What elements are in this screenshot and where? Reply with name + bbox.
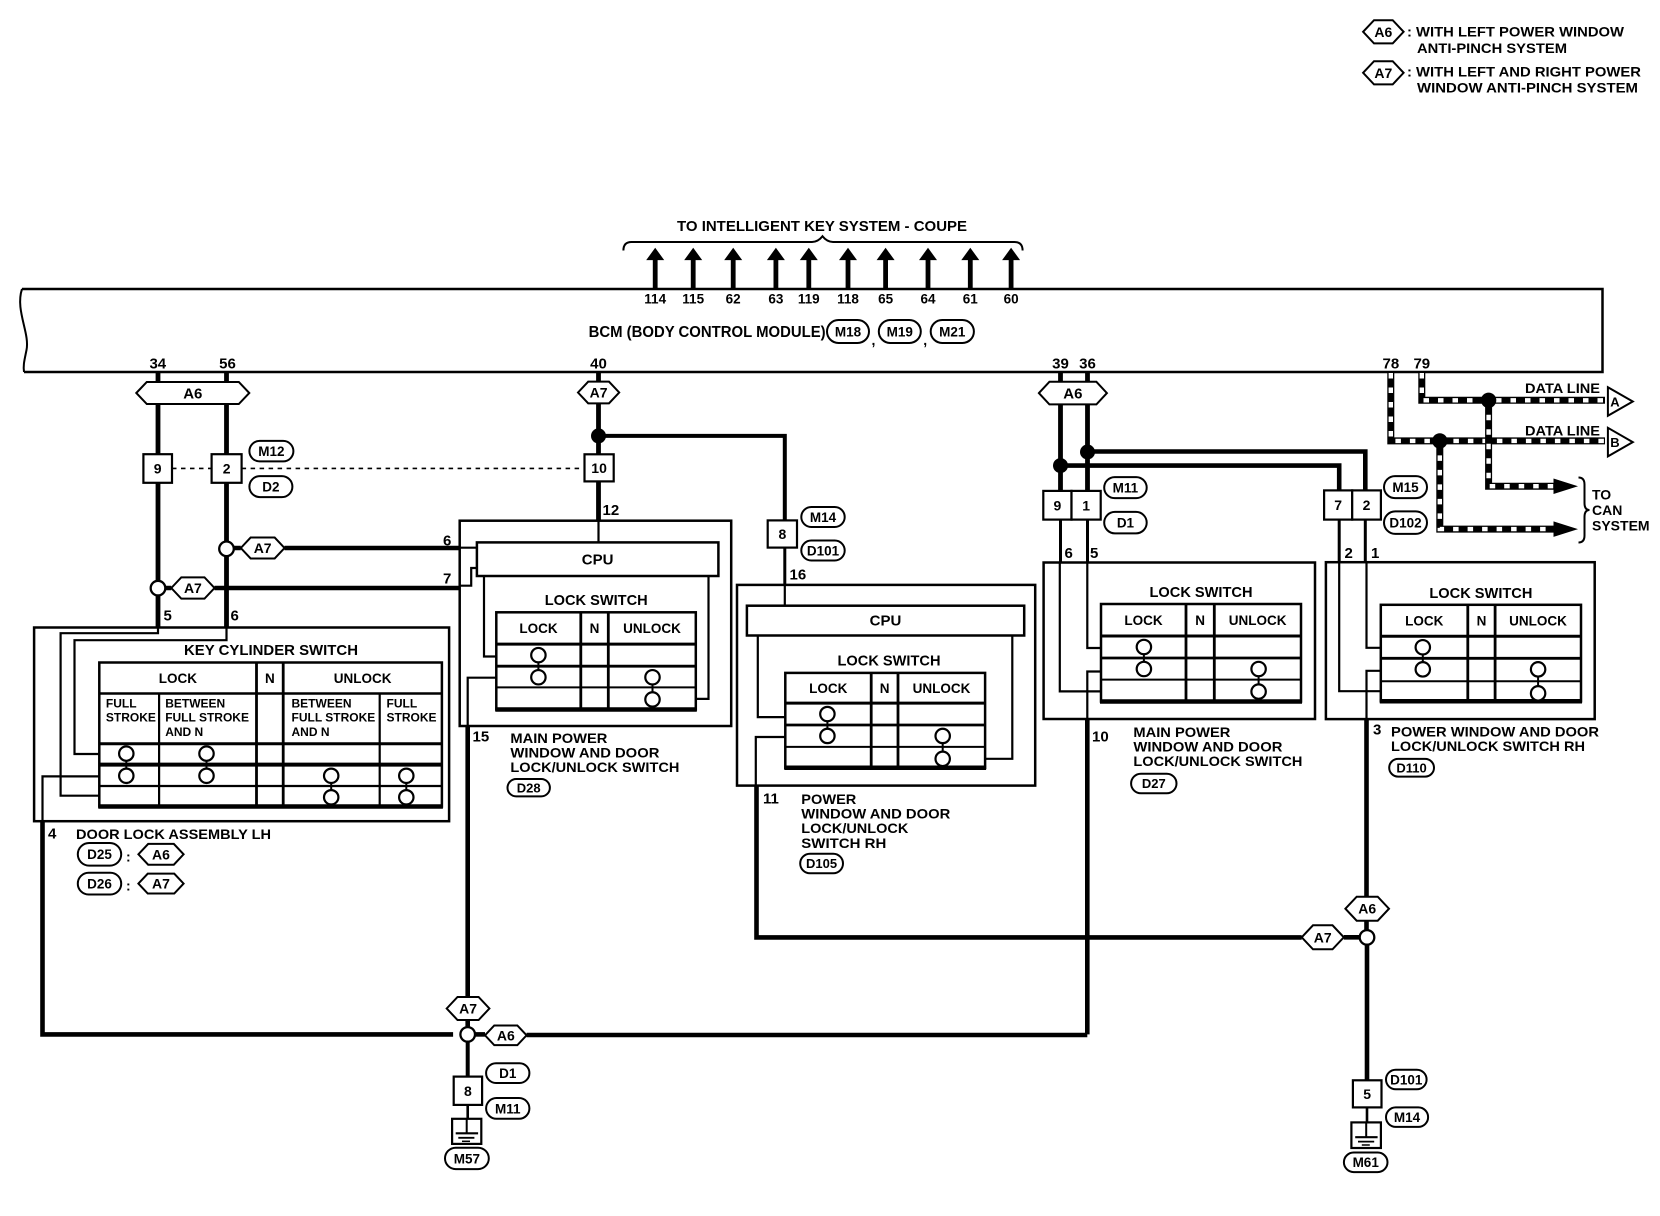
connector pin 9 (M12/D2) <box>143 454 172 483</box>
wire pin 12 inside D28 <box>597 521 599 543</box>
CAN system arrowhead upper <box>1554 479 1579 495</box>
shielded data line wire pin 79 to DATA LINE A <box>1422 373 1605 400</box>
svg-text:LOCK/UNLOCK SWITCH: LOCK/UNLOCK SWITCH <box>1133 753 1302 769</box>
wire row 2 to pin 3 (D110) <box>1367 671 1381 719</box>
svg-text:M12: M12 <box>258 444 284 459</box>
wire bottom bus to D27 pin 10 <box>527 1033 1088 1038</box>
main power window and door lock/unlock switch D28 box <box>460 521 732 726</box>
connector D1 (ground leg) <box>486 1063 529 1083</box>
svg-text:CAN: CAN <box>1592 502 1622 518</box>
svg-text:A7: A7 <box>1314 929 1332 945</box>
svg-text:UNLOCK: UNLOCK <box>1509 613 1567 628</box>
connector pin 8 (M14/D101) <box>768 520 797 547</box>
svg-text:LOCK: LOCK <box>519 621 557 636</box>
wire D110 pin 2 to row 3 <box>1339 562 1381 691</box>
connector M14 (ground leg) <box>1386 1107 1428 1127</box>
wire to D110 pin 1 <box>1364 520 1367 563</box>
svg-text:N: N <box>265 671 275 686</box>
BCM pin 62 arrow to intelligent key system <box>724 248 742 307</box>
wire door lock assembly pin 4 to splice <box>43 821 454 1034</box>
CPU bar U2 (D105) <box>747 606 1024 636</box>
svg-text:LOCK/UNLOCK SWITCH: LOCK/UNLOCK SWITCH <box>510 759 679 775</box>
svg-text:M15: M15 <box>1392 480 1419 495</box>
wire lock row 2 to pin 11 (D105) <box>756 737 786 786</box>
svg-text:78: 78 <box>1383 356 1400 373</box>
svg-text:12: 12 <box>603 502 620 519</box>
wire hexagon to splice <box>1364 921 1369 931</box>
svg-text:4: 4 <box>48 826 57 843</box>
wire pin 34 stub <box>156 372 161 382</box>
connector A7 (branch to D28 pin 6) <box>241 538 285 559</box>
wire lock row 2 to pin 15 (D28) <box>468 678 497 726</box>
svg-text:LOCK SWITCH: LOCK SWITCH <box>1429 585 1532 602</box>
svg-text:N: N <box>1195 613 1205 628</box>
svg-text:A7: A7 <box>459 1001 477 1017</box>
svg-text:KEY CYLINDER SWITCH: KEY CYLINDER SWITCH <box>184 642 358 659</box>
svg-text:CPU: CPU <box>582 552 614 569</box>
wire pin 16 inside D105 <box>784 585 786 606</box>
connector pin 8 (D1/M11) <box>454 1077 482 1105</box>
connector M11 (ground leg) <box>486 1098 529 1119</box>
svg-text:56: 56 <box>219 356 236 373</box>
wire A7 branch to D28 pin 6 <box>285 546 460 551</box>
lock switch table (D110) <box>1380 605 1582 702</box>
svg-text:D26: D26 <box>87 877 112 892</box>
svg-text:34: 34 <box>149 356 166 373</box>
junction on wire 36 <box>1080 445 1095 460</box>
lock switch table (D105) <box>784 673 986 768</box>
connector A7 (branch to D28 pin 7) <box>171 577 214 598</box>
svg-text:115: 115 <box>682 292 704 307</box>
connector pin 5 (D101/M14) <box>1353 1080 1382 1107</box>
connector D25 <box>78 843 121 866</box>
wire 34 to key cylinder pin 5 <box>156 595 161 627</box>
svg-text:AND N: AND N <box>165 725 203 739</box>
svg-text:FULL STROKE: FULL STROKE <box>292 711 376 725</box>
wire D27 pin 5 to row 1 <box>1087 563 1101 649</box>
wire splice down to connector 5 <box>1365 945 1370 1081</box>
wire 56 below connector <box>224 483 229 542</box>
branch wire 36 to connector 2 (M15/D102) <box>1088 452 1366 491</box>
svg-text:6: 6 <box>231 608 239 625</box>
svg-text:N: N <box>1477 613 1487 628</box>
svg-text:114: 114 <box>644 292 666 307</box>
svg-text:5: 5 <box>164 608 172 625</box>
junction on data line A <box>1481 393 1496 408</box>
svg-text:5: 5 <box>1090 545 1098 562</box>
svg-text:UNLOCK: UNLOCK <box>913 681 971 696</box>
svg-text:M21: M21 <box>939 324 966 339</box>
svg-text:,: , <box>872 332 876 348</box>
curly brace TO CAN SYSTEM <box>1579 478 1590 543</box>
svg-text:LOCK SWITCH: LOCK SWITCH <box>838 652 941 669</box>
stub splice to A7 hexagon <box>165 586 171 591</box>
BCM pin 60 arrow to intelligent key system <box>1002 248 1020 307</box>
svg-text:,: , <box>923 332 927 348</box>
svg-text:ANTI-PINCH SYSTEM: ANTI-PINCH SYSTEM <box>1417 40 1567 56</box>
wire to D105 pin 16 <box>783 548 786 585</box>
svg-text:6: 6 <box>1065 545 1073 562</box>
ground M61 <box>1351 1122 1381 1148</box>
shielded wire junction A to CAN system <box>1489 400 1554 486</box>
BCM pin 118 arrow to intelligent key system <box>837 248 859 307</box>
svg-text:LOCK: LOCK <box>809 681 847 696</box>
wire D105 pin 11 down <box>757 786 1302 938</box>
wire row 2 to pin 10 (D27) <box>1087 672 1101 720</box>
wire to D27 pin 6 <box>1059 520 1062 563</box>
svg-text:60: 60 <box>1004 292 1019 307</box>
svg-text:M14: M14 <box>810 510 837 525</box>
wire D27 pin 6 to row 3 <box>1060 563 1101 692</box>
BCM pin 64 arrow to intelligent key system <box>919 248 937 307</box>
BCM pin 61 arrow to intelligent key system <box>961 248 979 307</box>
connector pin 1 (M11/D1) <box>1072 491 1101 520</box>
connector D101 <box>801 541 844 561</box>
svg-text:A7: A7 <box>184 580 202 596</box>
svg-text:119: 119 <box>798 292 820 307</box>
wire 40 down to connector 10 <box>596 403 601 454</box>
svg-text:63: 63 <box>768 292 784 307</box>
connector A6 (pins 34/56) <box>136 382 249 404</box>
wire to D110 pin 2 <box>1338 520 1341 563</box>
svg-text::: : <box>126 849 131 865</box>
connector D28 <box>508 779 550 796</box>
svg-text:62: 62 <box>726 292 741 307</box>
splice junction on wire 56 <box>219 542 234 557</box>
svg-text:LOCK: LOCK <box>1124 613 1162 628</box>
svg-text:BETWEEN: BETWEEN <box>165 697 225 711</box>
wire connector 8 to ground <box>466 1105 469 1119</box>
shielded data line wire pin 78 to DATA LINE B <box>1391 373 1605 441</box>
svg-text:D1: D1 <box>1117 516 1135 531</box>
connector D26 <box>78 873 121 895</box>
wire D28 pin 7 to CPU <box>460 568 477 586</box>
svg-text:FULL: FULL <box>387 697 418 711</box>
BCM pin 115 arrow to intelligent key system <box>682 248 704 307</box>
svg-text:M11: M11 <box>1113 481 1139 496</box>
svg-text:A6: A6 <box>497 1027 515 1043</box>
svg-text:6: 6 <box>443 533 451 550</box>
svg-text:5: 5 <box>1363 1086 1371 1102</box>
svg-text:M57: M57 <box>454 1151 480 1166</box>
connector A6 (pins 39/36) <box>1039 382 1107 405</box>
svg-text:M18: M18 <box>835 324 862 339</box>
svg-text:A7: A7 <box>254 540 272 556</box>
svg-text:M61: M61 <box>1353 1155 1380 1170</box>
CPU bar U1 (D28) <box>477 542 719 576</box>
wire A7 branch to D28 pin 7 <box>215 586 460 591</box>
svg-text:A7: A7 <box>152 876 170 892</box>
svg-text:M14: M14 <box>1394 1110 1421 1125</box>
wire D27 pin 10 down <box>1085 719 1090 1034</box>
svg-text:M19: M19 <box>887 324 913 339</box>
wire splice down to connector 8 <box>466 1042 470 1077</box>
svg-text:BCM (BODY CONTROL MODULE): BCM (BODY CONTROL MODULE) <box>589 324 826 341</box>
svg-text:A6: A6 <box>1374 24 1392 40</box>
splice junction bottom left <box>460 1027 475 1042</box>
connector D105 <box>800 854 843 874</box>
wire 34 below connector <box>156 483 161 581</box>
connector D2 <box>249 476 292 497</box>
wire 36 down to connector M11/D1 <box>1085 404 1090 490</box>
svg-text:LOCK SWITCH: LOCK SWITCH <box>545 592 648 609</box>
wire CPU to unlock row 3 (D28) <box>696 576 709 699</box>
svg-text:FULL STROKE: FULL STROKE <box>165 711 249 725</box>
BCM (Body Control Module) box <box>22 289 1603 372</box>
connector D27 <box>1131 774 1176 794</box>
connector A7 (pin 15 wire) <box>447 997 490 1020</box>
connector D1 <box>1104 512 1147 534</box>
svg-text:64: 64 <box>920 292 936 307</box>
svg-text::: : <box>126 878 131 894</box>
svg-text:8: 8 <box>778 526 786 542</box>
ground M57 <box>452 1119 481 1144</box>
svg-text:39: 39 <box>1052 356 1069 373</box>
stub splice to A7 hexagon <box>234 546 241 551</box>
wire pin 39 stub <box>1058 372 1063 382</box>
junction on wire 39 <box>1053 458 1068 473</box>
door lock assembly LH outer box <box>34 628 449 822</box>
svg-text:A6: A6 <box>1063 386 1082 403</box>
svg-text:D1: D1 <box>499 1066 517 1081</box>
key cylinder internal wire pin 6 to row 1 <box>75 628 227 755</box>
svg-text:118: 118 <box>837 292 859 307</box>
connector pin 7 (M15/D102) <box>1324 490 1352 519</box>
bracket over arrows <box>623 236 1022 250</box>
junction wire 40 branch <box>591 428 606 443</box>
off-page arrow B <box>1608 428 1633 457</box>
svg-text:LOCK SWITCH: LOCK SWITCH <box>1150 584 1253 601</box>
connector crossing dashed line <box>172 467 585 469</box>
svg-text:3: 3 <box>1373 722 1381 739</box>
power window and door lock/unlock switch RH D110 box <box>1326 562 1595 719</box>
connector M15 <box>1384 476 1427 498</box>
svg-text:BETWEEN: BETWEEN <box>292 697 352 711</box>
svg-text:A7: A7 <box>590 385 608 401</box>
svg-text:FULL: FULL <box>106 697 137 711</box>
stub splice to A6 hexagon <box>475 1032 485 1037</box>
key cylinder internal wire row 2 to pin 4 <box>43 776 100 821</box>
wire D28 pin 15 down <box>465 726 470 997</box>
wire D110 pin 1 to row 1 <box>1367 562 1381 648</box>
connector pin 2 (M15/D102) <box>1352 490 1381 519</box>
svg-text:STROKE: STROKE <box>387 711 437 725</box>
svg-text:15: 15 <box>473 729 490 746</box>
svg-text:D25: D25 <box>87 847 112 862</box>
svg-text:A7: A7 <box>1374 65 1392 81</box>
svg-text:LOCK: LOCK <box>1405 613 1443 628</box>
connector D101 (ground leg) <box>1386 1070 1427 1090</box>
svg-text:D2: D2 <box>262 480 279 495</box>
connector A7 (D105 pin 11 bus) <box>1302 925 1344 949</box>
svg-text:LOCK: LOCK <box>159 671 197 686</box>
svg-text:DATA LINE: DATA LINE <box>1525 423 1600 439</box>
svg-text:SWITCH RH: SWITCH RH <box>801 835 886 851</box>
wire 56 to connector M12/D2 <box>224 404 229 454</box>
svg-text:7: 7 <box>443 571 451 588</box>
connector M19 <box>879 320 921 343</box>
wire connector 5 to ground <box>1366 1107 1369 1122</box>
BCM pin 63 arrow to intelligent key system <box>767 248 785 307</box>
connector pin 9 (M11/D1) <box>1043 491 1071 520</box>
svg-text:A6: A6 <box>152 846 170 862</box>
wire CPU to lock row 1 (D28) <box>484 576 496 657</box>
svg-text:1: 1 <box>1082 497 1090 513</box>
off-page arrow A <box>1608 387 1633 416</box>
connector D102 <box>1384 511 1427 534</box>
connector A7 (pin 40) <box>578 382 619 404</box>
svg-text:36: 36 <box>1079 356 1096 373</box>
BCM box torn left edge <box>20 289 27 372</box>
svg-text:D110: D110 <box>1396 760 1426 775</box>
lock switch table (D27) <box>1100 604 1302 702</box>
connector M14 <box>801 507 844 527</box>
legend connector A7 <box>1363 61 1404 84</box>
connector A6 (pin 3 wire) <box>1345 897 1389 921</box>
BCM pin 119 arrow to intelligent key system <box>798 248 820 307</box>
BCM pin 65 arrow to intelligent key system <box>877 248 895 307</box>
svg-text:M11: M11 <box>495 1101 521 1116</box>
splice junction on wire 34 <box>151 581 166 596</box>
svg-text:10: 10 <box>591 460 607 476</box>
connector A7 (D26 variant) <box>138 874 183 894</box>
svg-text:LOCK/UNLOCK SWITCH RH: LOCK/UNLOCK SWITCH RH <box>1391 738 1585 754</box>
wire to D27 pin 5 <box>1086 520 1089 563</box>
svg-text:D28: D28 <box>517 780 541 795</box>
legend connector A6 <box>1363 20 1404 43</box>
wire pin 40 stub <box>596 372 601 382</box>
svg-text:10: 10 <box>1092 729 1109 746</box>
svg-text:STROKE: STROKE <box>106 711 156 725</box>
svg-text:D105: D105 <box>806 856 837 871</box>
svg-text:9: 9 <box>1054 497 1062 513</box>
svg-text:11: 11 <box>763 791 779 808</box>
connector A6 (D25 variant) <box>138 844 183 865</box>
svg-text:79: 79 <box>1413 356 1430 373</box>
svg-text:D101: D101 <box>807 543 840 558</box>
junction on data line B <box>1432 433 1447 448</box>
svg-text:A: A <box>1610 395 1620 410</box>
svg-text:D102: D102 <box>1389 516 1421 531</box>
CAN system arrowhead lower <box>1554 521 1579 537</box>
wire hexagon to splice <box>465 1020 470 1027</box>
connector M21 <box>931 320 974 343</box>
svg-text:: WITH LEFT AND RIGHT POWER: : WITH LEFT AND RIGHT POWER <box>1407 64 1641 80</box>
svg-text:7: 7 <box>1334 497 1342 513</box>
svg-text:40: 40 <box>590 356 607 373</box>
svg-text:DATA LINE: DATA LINE <box>1525 380 1600 396</box>
svg-text:UNLOCK: UNLOCK <box>1229 613 1287 628</box>
svg-text:9: 9 <box>154 461 162 477</box>
svg-text:: WITH LEFT POWER WINDOW: : WITH LEFT POWER WINDOW <box>1407 24 1625 40</box>
svg-text:AND N: AND N <box>292 725 330 739</box>
svg-text:2: 2 <box>223 461 231 477</box>
connector pin 10 (M12/D2) <box>585 454 614 481</box>
svg-text:TO INTELLIGENT KEY SYSTEM - CO: TO INTELLIGENT KEY SYSTEM - COUPE <box>677 218 967 235</box>
svg-text:WINDOW ANTI-PINCH SYSTEM: WINDOW ANTI-PINCH SYSTEM <box>1417 80 1638 96</box>
svg-text:D27: D27 <box>1142 776 1166 791</box>
svg-text:LOCK/UNLOCK: LOCK/UNLOCK <box>801 820 908 836</box>
main power window and door lock/unlock switch D27 box <box>1044 563 1315 720</box>
wire 34 to connector M12/D2 <box>156 404 161 454</box>
connector A6 (bottom bus) <box>485 1025 527 1045</box>
splice junction bottom right <box>1360 930 1375 945</box>
svg-text:UNLOCK: UNLOCK <box>334 671 392 686</box>
svg-text:N: N <box>880 681 890 696</box>
wire 40 to D28 pin 12 <box>596 481 601 520</box>
wire CPU to lock row 1 (D105) <box>758 636 786 718</box>
stub hexagon to splice <box>1344 935 1360 940</box>
key cylinder switch table <box>98 663 443 807</box>
svg-text:A6: A6 <box>183 385 202 402</box>
wire 56 to key cylinder pin 6 <box>224 556 229 627</box>
svg-text:N: N <box>590 621 600 636</box>
connector pin 2 (M12/D2) <box>212 454 242 483</box>
svg-text:TO: TO <box>1592 487 1611 503</box>
svg-text:DOOR LOCK ASSEMBLY LH: DOOR LOCK ASSEMBLY LH <box>76 826 271 842</box>
wire D28 pin 6 to CPU <box>460 547 477 549</box>
ground connector M61 <box>1344 1153 1388 1173</box>
svg-text:2: 2 <box>1345 545 1353 562</box>
svg-text:A6: A6 <box>1358 901 1376 917</box>
wire pin 36 stub <box>1085 372 1090 382</box>
power window and door lock/unlock switch RH D105 box <box>737 585 1035 786</box>
svg-text:61: 61 <box>963 292 979 307</box>
BCM pin 114 arrow to intelligent key system <box>644 248 666 307</box>
svg-text:D101: D101 <box>1390 1072 1423 1087</box>
key cylinder internal wire pin 5 to row 3 <box>61 628 158 796</box>
branch wire to D105 via M14/D101 <box>599 436 785 521</box>
svg-text:CPU: CPU <box>870 613 902 630</box>
wire D110 pin 3 down <box>1364 719 1369 897</box>
wire 39 down to connector M11/D1 <box>1058 404 1063 490</box>
svg-text:1: 1 <box>1371 545 1379 562</box>
svg-text:SYSTEM: SYSTEM <box>1592 518 1650 534</box>
svg-text:2: 2 <box>1363 497 1371 513</box>
svg-text:16: 16 <box>790 567 807 584</box>
svg-text:UNLOCK: UNLOCK <box>623 621 681 636</box>
svg-text:8: 8 <box>464 1083 472 1099</box>
wire pin 56 stub <box>224 372 229 382</box>
connector M11 <box>1104 477 1147 498</box>
connector M12 <box>249 441 293 462</box>
shielded wire junction B to CAN system <box>1440 441 1554 529</box>
lock switch table (D28) <box>495 612 697 709</box>
svg-text:WINDOW AND DOOR: WINDOW AND DOOR <box>1133 738 1282 754</box>
ground connector M57 <box>445 1148 489 1169</box>
branch wire 39 to connector 7 (M15/D102) <box>1061 466 1340 491</box>
connector D110 <box>1389 759 1434 777</box>
svg-text:B: B <box>1610 435 1619 450</box>
wire CPU to unlock row 3 (D105) <box>985 636 1012 759</box>
connector M18 <box>827 320 869 343</box>
svg-text:65: 65 <box>878 292 894 307</box>
